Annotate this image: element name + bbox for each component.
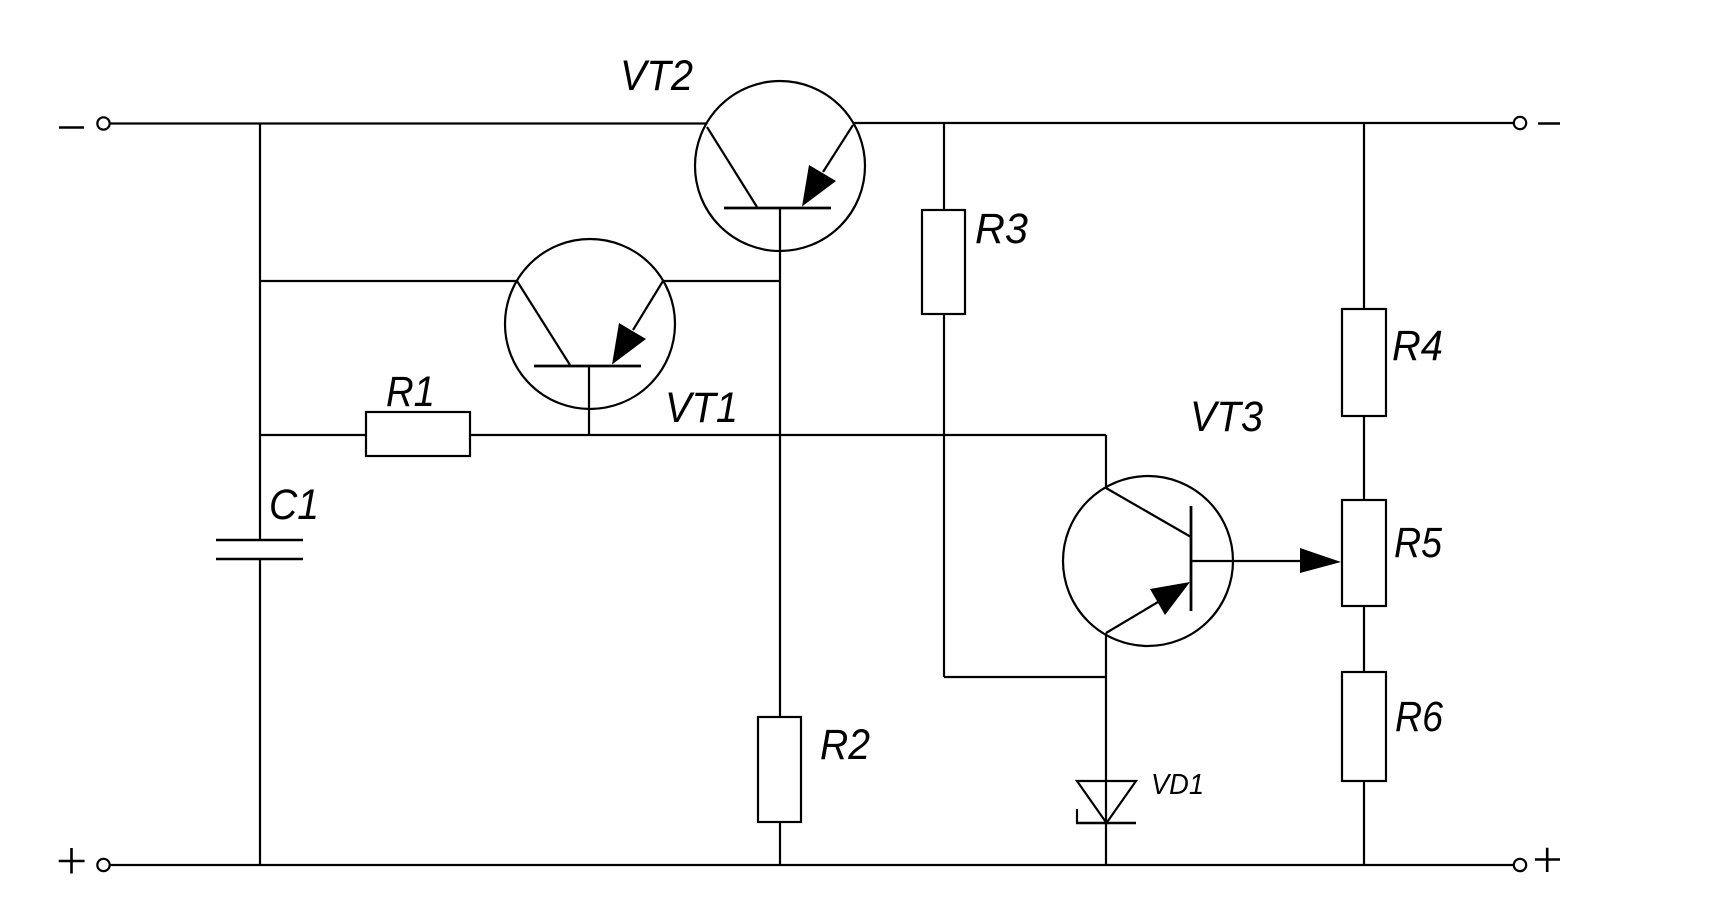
transistor VT3 emitter line xyxy=(1106,602,1158,633)
svg-text:C1: C1 xyxy=(269,482,319,529)
terminal top-right xyxy=(1514,117,1526,129)
polarity minus top-left xyxy=(59,126,84,129)
wire R2 to bottom rail xyxy=(779,822,781,865)
svg-text:VT2: VT2 xyxy=(620,53,693,100)
svg-text:VT1: VT1 xyxy=(665,385,738,432)
wire VT1 collector row left xyxy=(260,280,517,282)
transistor VT1 emitter line xyxy=(633,281,663,330)
wire R1 row right xyxy=(470,434,1106,436)
transistor VT1 collector line xyxy=(517,281,570,365)
capacitor C1 top plate xyxy=(216,539,303,542)
svg-text:R4: R4 xyxy=(1392,323,1443,370)
svg-text:R2: R2 xyxy=(820,722,870,769)
wire right column top lead xyxy=(1363,123,1365,309)
wire R4 to R5 xyxy=(1363,416,1365,500)
transistor VT2 emitter arrow xyxy=(802,165,836,207)
transistor VT1 base bar xyxy=(534,365,641,368)
wire VT3 base lead to R5 wiper xyxy=(1191,560,1301,562)
zener diode VD1 cathode hook xyxy=(1076,809,1078,823)
wire left vertical lower (from C1) xyxy=(259,559,261,865)
resistor R6 xyxy=(1342,672,1386,781)
transistor VT2 collector line xyxy=(707,127,757,207)
resistor R1 xyxy=(366,412,470,456)
wire R3 bottom to VT3 emitter xyxy=(944,676,1106,678)
transistor VT2 emitter line xyxy=(823,125,853,172)
svg-text:R1: R1 xyxy=(386,369,435,416)
polarity plus bottom-left xyxy=(59,848,85,874)
wire top rail left segment xyxy=(110,122,706,124)
resistor R4 xyxy=(1342,309,1386,416)
wire VT3 emitter down through VD1 to bottom rail xyxy=(1105,633,1107,865)
transistor VT1 emitter arrow xyxy=(612,323,646,365)
resistor R3 xyxy=(922,210,965,314)
wire VT1 base lead xyxy=(588,366,590,435)
wire bottom rail xyxy=(110,864,1514,866)
wire R6 to bottom rail xyxy=(1363,781,1365,865)
polarity minus top-right xyxy=(1538,122,1560,125)
potentiometer R5 xyxy=(1342,500,1386,606)
zener diode VD1 cathode bar xyxy=(1076,822,1136,824)
svg-text:VD1: VD1 xyxy=(1151,769,1204,801)
svg-text:R6: R6 xyxy=(1395,694,1443,741)
terminal bottom-right xyxy=(1514,859,1526,871)
wire top rail right segment xyxy=(854,122,1514,124)
transistor VT2 circle xyxy=(695,81,865,251)
wire R3 bottom lead long xyxy=(943,314,945,677)
transistor VT1 circle xyxy=(505,239,675,409)
transistor VT3 base bar xyxy=(1190,506,1193,611)
transistor VT3 collector line xyxy=(1106,488,1191,537)
svg-text:R3: R3 xyxy=(975,206,1028,253)
capacitor C1 bottom plate xyxy=(216,558,303,561)
polarity plus bottom-right xyxy=(1535,848,1560,872)
wire R1 row left xyxy=(260,434,366,436)
wire R5 to R6 xyxy=(1363,606,1365,672)
wire VT3 collector lead xyxy=(1105,435,1107,488)
resistor R2 xyxy=(758,717,801,822)
terminal bottom-left xyxy=(97,859,109,871)
transistor VT2 base bar xyxy=(724,207,831,210)
potentiometer R5 wiper arrow xyxy=(1300,548,1341,573)
svg-text:R5: R5 xyxy=(1394,520,1442,567)
svg-text:VT3: VT3 xyxy=(1190,394,1263,441)
wire left vertical upper (to C1) xyxy=(259,124,261,541)
zener diode VD1 triangle xyxy=(1077,781,1136,823)
wire R3 top lead xyxy=(943,123,945,210)
wire VT1 emitter row right xyxy=(663,280,780,282)
wire VT2 base lead down to R2 xyxy=(779,208,781,717)
terminal top-left xyxy=(97,117,109,129)
transistor VT3 circle xyxy=(1063,476,1233,646)
transistor VT3 emitter arrow xyxy=(1150,582,1190,615)
